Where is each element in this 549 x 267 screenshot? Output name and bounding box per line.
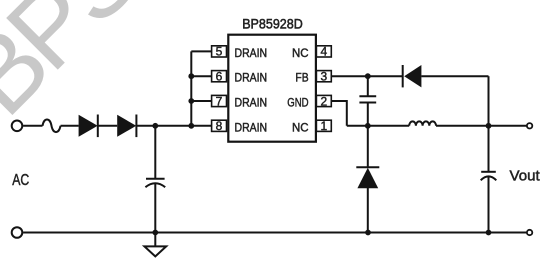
- junction: [188, 73, 194, 79]
- pin 6 box: [212, 70, 227, 84]
- junction: [365, 73, 371, 79]
- diode D1: [79, 115, 98, 138]
- IC U1 BP85928D: [228, 15, 316, 141]
- wire: [421, 75, 488, 77]
- FB wire: [331, 75, 402, 77]
- wire: [23, 125, 42, 127]
- svg-text:DRAIN: DRAIN: [235, 96, 268, 110]
- diode D3: [403, 65, 422, 87]
- svg-text:6: 6: [216, 70, 223, 84]
- wire: [98, 125, 117, 127]
- junction: [486, 230, 492, 236]
- pin 3 box: [316, 70, 331, 84]
- wire switch node: [347, 125, 409, 127]
- svg-text:4: 4: [321, 45, 328, 59]
- capacitor C3: [481, 172, 497, 233]
- svg-text:DRAIN: DRAIN: [235, 71, 268, 85]
- svg-text:NC: NC: [292, 46, 309, 60]
- bottom rail wire: [23, 232, 527, 234]
- junction: [188, 98, 194, 104]
- Vout terminal bottom: [527, 230, 532, 235]
- svg-text:GND: GND: [287, 96, 309, 110]
- svg-text:NC: NC: [292, 120, 309, 134]
- wire: [136, 125, 211, 127]
- svg-text:5: 5: [216, 45, 223, 59]
- wire pin7 stub: [191, 100, 211, 102]
- pin 2 box: [316, 94, 331, 108]
- junction: [365, 230, 371, 236]
- junction: [365, 123, 371, 129]
- junction: [486, 123, 492, 129]
- svg-text:7: 7: [216, 94, 223, 108]
- pin 5 box: [212, 45, 227, 59]
- svg-text:AC: AC: [12, 172, 29, 189]
- pin 1 box: [316, 119, 331, 133]
- wire: [436, 125, 527, 127]
- ground: [144, 233, 166, 257]
- wire down from diode to output: [488, 76, 490, 171]
- svg-text:1: 1: [321, 119, 328, 133]
- capacitor C2: [359, 76, 376, 126]
- svg-text:3: 3: [321, 70, 328, 84]
- junction: [188, 123, 194, 129]
- wire pin6 stub: [191, 75, 211, 77]
- wire: [61, 125, 79, 127]
- junction: [152, 123, 158, 129]
- inductor L1: [409, 121, 436, 125]
- pin2 wire: [331, 101, 347, 126]
- svg-text:FB: FB: [295, 71, 308, 85]
- pin 7 box: [212, 94, 227, 108]
- Vout terminal top: [527, 123, 532, 128]
- svg-text:Vout: Vout: [510, 168, 540, 184]
- diode D4: [356, 126, 379, 233]
- svg-text:8: 8: [216, 119, 223, 133]
- pin 8 box: [212, 119, 227, 133]
- AC input terminal top: [12, 121, 23, 132]
- AC input terminal bottom: [12, 227, 23, 238]
- svg-text:DRAIN: DRAIN: [235, 120, 268, 134]
- svg-text:BP85928D: BP85928D: [242, 15, 303, 31]
- drain bus wire: [190, 51, 192, 125]
- pin 4 box: [316, 45, 331, 59]
- junction: [152, 230, 158, 236]
- wire pin5 stub: [191, 50, 211, 52]
- fuse F1: [43, 120, 61, 133]
- svg-text:DRAIN: DRAIN: [235, 46, 268, 60]
- diode D2: [117, 115, 136, 138]
- capacitor C1: [145, 126, 165, 233]
- svg-text:2: 2: [321, 94, 328, 108]
